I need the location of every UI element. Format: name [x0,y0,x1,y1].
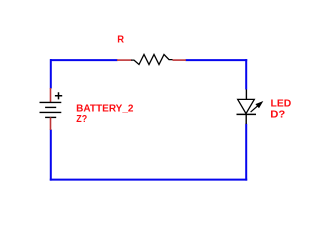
battery plate long 2 [40,111,62,113]
battery top lead (red) [50,88,52,102]
wire top-left segment [50,59,118,61]
LED cathode bar [237,113,257,115]
battery Z? [40,88,63,130]
wire top-right segment [186,59,248,61]
wire left upper segment [50,59,52,88]
svg-text:R: R [117,35,125,46]
resistor left lead (red) [117,59,132,61]
battery bottom lead (red) [50,117,52,130]
resistor right lead (red) [173,59,187,61]
LED D? [237,90,264,125]
battery plate short 1 [45,106,56,108]
resistor R [117,55,186,65]
LED bottom lead (black) [245,114,247,124]
LED triangle [238,99,255,113]
LED top lead (black) [245,90,247,100]
svg-text:BATTERY_2: BATTERY_2 [76,103,134,114]
wire right lower segment [245,124,247,181]
resistor zigzag body [131,55,173,65]
LED arrow head [255,101,263,108]
svg-text:Z?: Z? [76,114,87,125]
battery plus sign [55,92,62,99]
LED arrow shaft [251,105,259,112]
wire left lower segment [50,130,52,181]
svg-text:D?: D? [270,110,285,121]
battery plate long 1 [40,101,62,103]
wire right upper segment [245,59,247,89]
battery plate short 2 [45,116,56,118]
svg-text:LED: LED [271,99,292,110]
wire bottom segment [50,179,247,181]
